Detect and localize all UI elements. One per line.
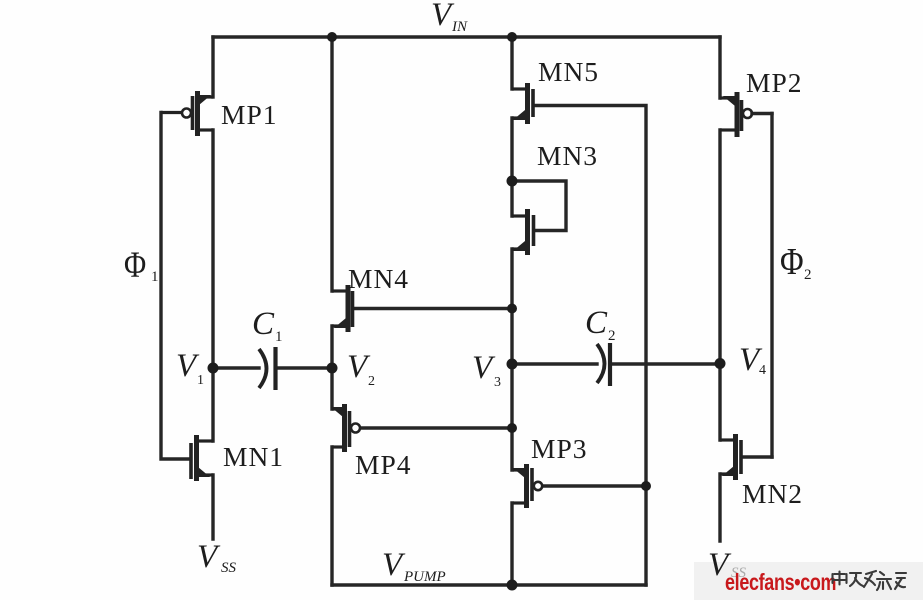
label V_4 [739,342,766,378]
transistor MP4 [331,404,360,452]
svg-text:1: 1 [275,329,283,345]
transistor MN1 [191,435,213,481]
label V_3 [472,350,501,390]
node junction MN3 drain-gate [507,176,518,187]
transistor MN5 [512,83,533,124]
svg-text:PUMP: PUMP [403,569,446,585]
wire: V_IN top rail [213,35,720,38]
wire: MN3 source / gate dots / node V3 / MP3 drain [510,249,513,470]
svg-text:1: 1 [151,269,159,285]
svg-text:MN5: MN5 [538,56,599,87]
svg-text:C: C [252,306,275,342]
node junction MP3 gate [641,481,651,491]
wire: MP1 drain stub from rail [211,37,214,97]
wire: rail to MN4 drain [330,37,333,291]
wire: MN5 source to MN3 drain [510,118,513,216]
svg-text:4: 4 [759,363,766,378]
wire: rail to MN5 drain [510,37,513,89]
svg-text:IN: IN [451,19,468,35]
wire: V1 to C1 [213,366,259,369]
wire: C2 to V4 [611,362,720,365]
watermark chinese characters [833,571,907,590]
svg-text:2: 2 [804,267,812,283]
wire: MP4 gate line to middle column [361,426,512,429]
svg-text:SS: SS [221,560,237,576]
capacitor C1 [259,347,276,390]
node junction on rail above MN5 [507,32,517,42]
node junction on rail above MN4 [327,32,337,42]
svg-text:C: C [585,305,608,341]
wire: MN5 gate line right and down to VPUMP rail [535,106,646,586]
svg-text:V: V [197,539,221,575]
svg-text:V: V [382,547,406,583]
wire: VPUMP bottom rail [332,583,646,586]
svg-text:1: 1 [197,373,204,388]
svg-text:MN4: MN4 [348,263,409,294]
svg-text:Φ: Φ [780,241,804,283]
node V2 junction [327,363,338,374]
node junction MP4 gate [507,423,517,433]
svg-text:elecfans•com: elecfans•com [725,570,836,596]
wire: MN3 diode connection loop [512,181,566,231]
wire: MP4 source down to VPUMP rail [330,447,333,585]
label V_2 [347,349,375,389]
svg-text:2: 2 [608,328,616,344]
wire: MP2 drain stub from rail [718,37,721,98]
capacitor C2 [597,343,610,386]
wire: MN1 source to VSS [211,475,214,539]
transistor MP2 [720,92,752,137]
label phi_2 [780,241,812,283]
transistor MN4 [332,285,353,332]
watermark band [694,562,923,600]
label V_IN [431,0,468,35]
label V_1 [176,348,204,388]
svg-text:MP1: MP1 [221,99,278,130]
wire: MN4 gate line to middle column [354,307,512,310]
transistor MP1 [161,91,213,136]
wire: MP2 source / node V4 / MN2 drain column [718,130,721,440]
transistor MN3 [512,209,534,255]
wire: MN2 gate stub [743,455,772,458]
transistor MN2 [720,434,741,480]
label phi_1 [124,245,159,285]
transistor MP3 [513,464,542,508]
svg-text:MP4: MP4 [355,449,412,480]
node V3 junction [507,359,518,370]
node junction on VPUMP rail [507,580,518,591]
label V_PUMP [382,547,446,585]
svg-text:MP3: MP3 [531,433,588,464]
wire: phi1 line from MP1 gate down to MN1 gate [161,113,190,460]
svg-text:Φ: Φ [124,245,146,285]
svg-text:MN3: MN3 [537,140,598,171]
wire: MN2 source to VSS [718,474,721,541]
wire: MP2 gate stub [752,112,772,115]
svg-text:V: V [472,350,496,386]
svg-text:MN2: MN2 [742,478,803,509]
label V_SS left [197,539,237,576]
svg-text:MN1: MN1 [223,441,284,472]
node V4 junction [715,358,726,369]
wire: C1 to V2 [276,366,332,369]
node V1 junction [208,363,219,374]
svg-text:MP2: MP2 [746,67,803,98]
label V_SS right [708,547,747,583]
label C_1 [252,306,283,345]
wire: V3 to C2 [512,362,597,365]
label C_2 [585,305,616,344]
wire: MP3 gate line to right column [543,484,646,487]
wire: MP1 source / node V1 / MN1 drain column [211,130,214,441]
wire: phi2 line from MP2 gate down to MN2 gate [770,114,773,458]
svg-text:3: 3 [494,375,501,390]
wire: MP3 source down to VPUMP rail [510,503,513,585]
node junction MN4 gate [507,304,517,314]
svg-text:2: 2 [368,374,375,389]
wire: MN4 source / node V2 / MP4 drain [330,326,333,409]
